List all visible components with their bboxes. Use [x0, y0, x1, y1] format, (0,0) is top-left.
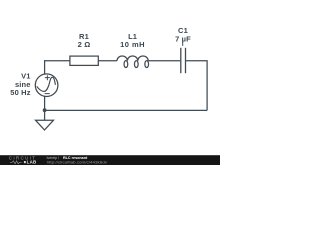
wire bottom — [45, 109, 208, 111]
watermark logo zigzag — [10, 161, 22, 164]
inductor L1 loops — [124, 61, 128, 68]
resistor R1 body — [70, 56, 98, 65]
watermark bar — [0, 155, 220, 165]
ground symbol — [36, 120, 54, 130]
voltage source V1 circle — [35, 74, 58, 97]
wire top-left horizontal — [45, 60, 70, 62]
capacitor C1 left plate — [180, 48, 182, 73]
wire L1 to C1 — [148, 60, 180, 62]
svg-text:50 Hz: 50 Hz — [10, 88, 30, 97]
svg-text:2 Ω: 2 Ω — [78, 40, 91, 49]
wire R1 to L1 — [98, 60, 117, 62]
svg-text:7 µF: 7 µF — [175, 35, 191, 44]
node junction dot — [43, 108, 47, 112]
V1 minus sign — [45, 93, 50, 95]
wire left vertical top — [44, 60, 46, 74]
capacitor C1 right plate — [185, 48, 187, 73]
inductor L1 humps — [117, 56, 148, 61]
svg-text:http://circuitlab.com/c/443k6d: http://circuitlab.com/c/443k6dv — [47, 160, 108, 164]
svg-text:LAB: LAB — [27, 160, 37, 165]
wire left vertical bottom — [44, 96, 46, 120]
V1 sine wave — [37, 77, 56, 91]
wire C1 to right corner and down — [186, 61, 207, 111]
svg-text:10 mH: 10 mH — [120, 40, 145, 49]
mu descender of 7 uF value — [182, 43, 184, 46]
V1 plus sign — [45, 75, 50, 80]
watermark logo LAB square — [24, 161, 26, 163]
